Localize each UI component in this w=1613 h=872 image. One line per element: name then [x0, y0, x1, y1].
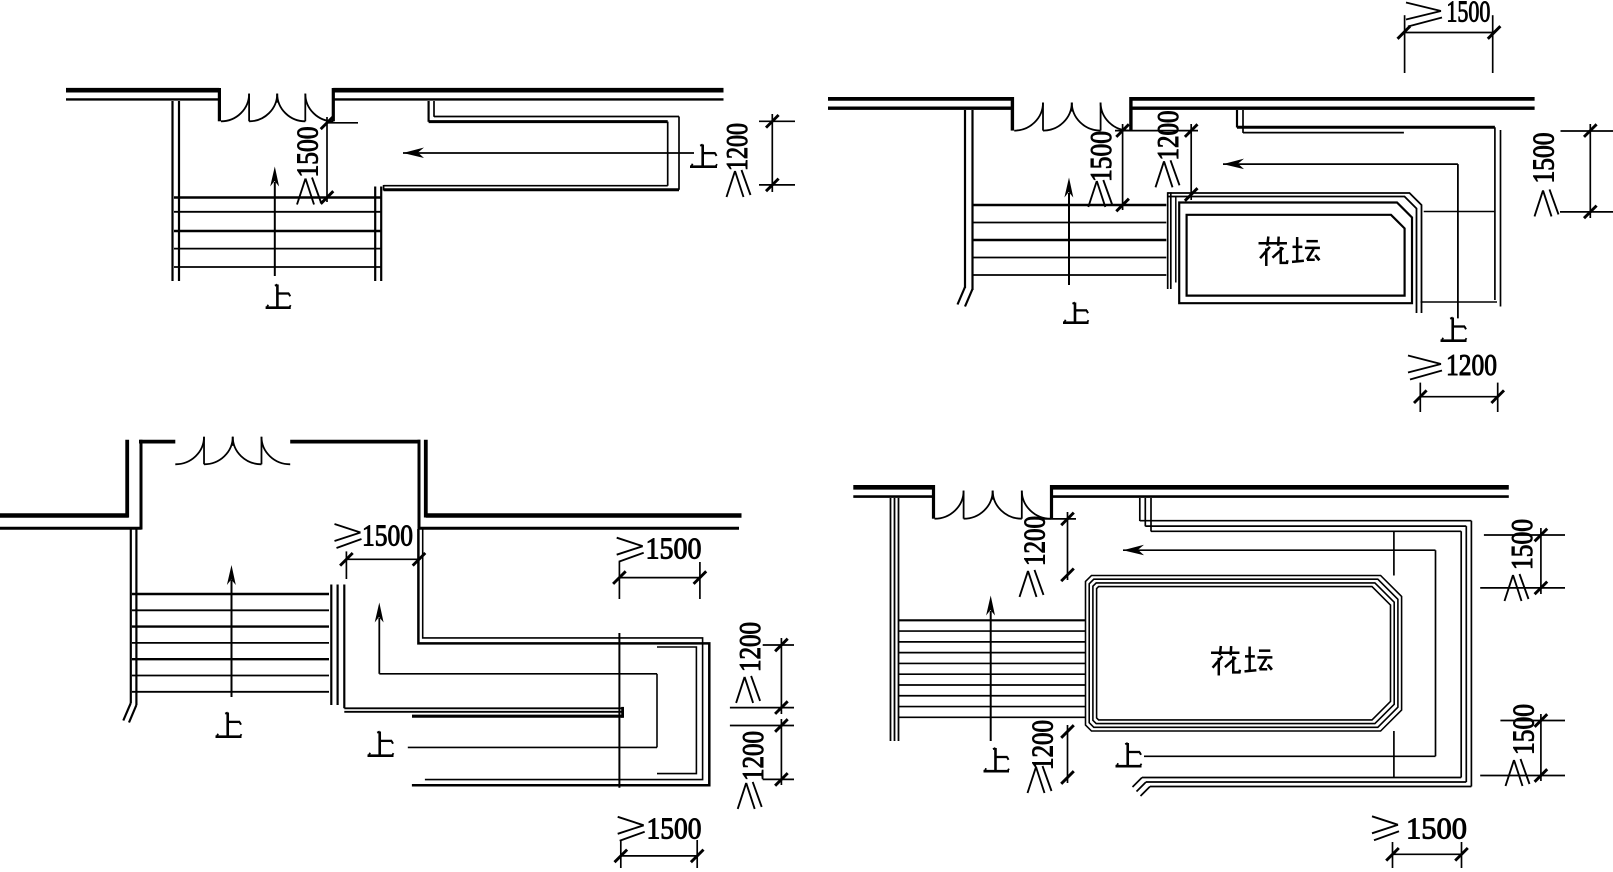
- svg-text:1200: 1200: [735, 731, 770, 781]
- BR dimension >=1200 (stairs bottom to walkway): [1025, 720, 1074, 793]
- TR upper walkway top edge (thick+thin): [1237, 127, 1495, 132]
- BL ramp area boundary (thin): [423, 529, 703, 780]
- TL label shang (stairs): [266, 285, 291, 308]
- BR lower route line: [1144, 755, 1436, 757]
- svg-text:1500: 1500: [1526, 133, 1561, 184]
- svg-text:1500: 1500: [1506, 704, 1541, 755]
- TR route corner vertical: [1457, 164, 1459, 318]
- svg-text:1500: 1500: [1446, 0, 1490, 29]
- BR wall left segment (double line): [853, 487, 934, 496]
- BL dimension >=1200 (lower ramp run): [730, 719, 794, 809]
- TR double door symbol: [1014, 103, 1129, 131]
- BL dimension >=1500 (turn landing top): [613, 531, 706, 600]
- BR landing division segments: [1393, 531, 1395, 777]
- BL stair left railing with broken end: [123, 530, 136, 723]
- svg-text:1500: 1500: [1504, 519, 1539, 570]
- TR flower bed outer outline: [1179, 203, 1412, 304]
- svg-text:1200: 1200: [1017, 516, 1052, 566]
- BR walkway hanging verticals (triple): [1140, 498, 1151, 532]
- BR door right jamb: [1050, 485, 1053, 519]
- TL upper walkway hanging verticals: [429, 101, 434, 122]
- BL outer wall right (thick): [426, 513, 742, 518]
- TL wall right segment (double line): [333, 90, 723, 99]
- TL wall left segment (double line): [66, 90, 219, 99]
- svg-text:1200: 1200: [1025, 720, 1060, 770]
- TR dimension >=1500 (door to stair): [1083, 124, 1198, 211]
- TL stair up arrow: [270, 167, 279, 277]
- svg-text:1200: 1200: [719, 123, 754, 171]
- BL label shang (stairs): [216, 713, 242, 737]
- BR dimension >=1200 (door to bed): [1017, 512, 1077, 597]
- BR walkway bottom band (triple line) with broken ends: [1133, 778, 1472, 797]
- TR dimension >=1200 (bottom): [1408, 347, 1504, 412]
- TR right ramp landing line: [1424, 211, 1495, 213]
- svg-text:1500: 1500: [646, 531, 702, 566]
- BL dimension >=1200 (upper ramp run): [730, 622, 794, 714]
- TR dimension >=1500 (right side): [1526, 124, 1613, 218]
- svg-text:1500: 1500: [647, 811, 702, 846]
- TL upper walkway top edge (thin+thick): [429, 117, 679, 122]
- BL upper route line with up arrow: [375, 603, 657, 674]
- BR walkway right band (triple line): [1461, 521, 1471, 787]
- TL door left jamb: [218, 88, 221, 121]
- TR wall right segment (double line): [1131, 99, 1535, 108]
- TR flower bed left retaining double line: [1168, 192, 1171, 289]
- TR dimension >=1500 (top, above wall): [1398, 0, 1501, 73]
- BR dimension >=1500 (right walkway top): [1480, 519, 1565, 601]
- TL walkway direction line with left arrow: [403, 148, 694, 159]
- BL dimension >=1500 (turn landing bottom): [615, 811, 704, 869]
- TL label shang (walkway): [690, 145, 717, 167]
- BR stair up arrow: [986, 596, 995, 742]
- BL label shang (route): [368, 732, 394, 756]
- BR flower bed outline ring 2: [1089, 579, 1398, 727]
- TL upper walkway bottom edge (thin+thick): [384, 185, 679, 191]
- BL alcove left outer corner vertical: [125, 440, 129, 518]
- BR double door symbol: [935, 491, 1051, 519]
- svg-text:1500: 1500: [290, 127, 325, 178]
- BR flower bed outline ring 1: [1086, 576, 1402, 732]
- TR flower bed upper walkway edge with chamfer: [1168, 193, 1422, 313]
- BL outer wall left (thick): [0, 513, 129, 518]
- BL stair steps: [132, 594, 329, 692]
- BR label shang (stairs): [984, 748, 1010, 771]
- BL alcove left inner vertical: [140, 440, 143, 530]
- BL dimension >=1500 (door landing): [335, 518, 426, 580]
- BR flower bed outline ring 4 (inner): [1097, 587, 1391, 720]
- svg-text:1200: 1200: [1446, 347, 1497, 382]
- TL stair right railing (double line): [375, 187, 381, 282]
- BR flower bed label huatan: [1211, 646, 1272, 675]
- BR walkway direction line with left arrow: [1123, 545, 1436, 556]
- TL upper walkway right edge: [668, 117, 679, 190]
- BL alcove top wall right of door: [290, 440, 420, 444]
- TR dimension >=1200 (door to flower bed): [1150, 111, 1197, 201]
- TR door left jamb: [1011, 97, 1014, 131]
- TR wall left segment (double line): [828, 99, 1014, 108]
- BL turning platform outline: [657, 647, 696, 774]
- BR door left jamb: [932, 485, 935, 519]
- BL route corner vertical: [656, 674, 658, 748]
- BL stair up arrow: [227, 565, 236, 697]
- BL inner wall right: [419, 527, 739, 530]
- TL stair left railing (double line): [173, 101, 180, 281]
- TR stair steps: [973, 205, 1167, 275]
- TL dimension >=1500 (door to stair): [290, 117, 359, 205]
- svg-text:1500: 1500: [362, 518, 413, 553]
- TR upper walkway hanging verticals: [1237, 110, 1243, 133]
- TR label shang (stairs): [1063, 303, 1089, 323]
- TR right ramp bottom line: [1421, 301, 1498, 303]
- BR route corner vertical: [1435, 550, 1437, 756]
- BL landing edge L and double line: [344, 585, 622, 712]
- TR door right jamb: [1129, 97, 1132, 131]
- BL alcove right inner vertical: [418, 440, 421, 530]
- svg-text:1500: 1500: [1083, 131, 1118, 182]
- TR flower bed label huatan: [1259, 237, 1320, 266]
- BL double door symbol: [175, 437, 290, 465]
- BL alcove right outer corner vertical: [424, 440, 428, 518]
- BL alcove top wall left of door: [139, 440, 175, 444]
- BR flower bed outline ring 3: [1093, 583, 1394, 724]
- BR stair steps: [899, 620, 1086, 717]
- TL dimension >=1200 (walkway width): [719, 114, 795, 197]
- TL stair steps: [174, 198, 381, 268]
- TL door right jamb: [332, 88, 335, 121]
- BR stair left railing (triple line): [891, 498, 899, 741]
- BL landing division line: [618, 633, 620, 788]
- BL lower route line: [408, 746, 657, 748]
- BR walkway top band (triple line): [1140, 521, 1472, 532]
- TR right ramp right edge (double line): [1495, 127, 1501, 306]
- BR wall right segment (double line): [1052, 487, 1509, 496]
- svg-text:1200: 1200: [732, 622, 767, 672]
- svg-text:1500: 1500: [1406, 811, 1467, 846]
- BR label shang (route): [1116, 743, 1142, 766]
- TR walkway direction line with left arrow: [1223, 159, 1458, 170]
- TR flower bed inner outline: [1187, 215, 1405, 296]
- BL inner wall left: [0, 527, 142, 530]
- BL ramp area boundary (thick): [412, 529, 709, 785]
- BR dimension >=1500 (right walkway bottom): [1480, 704, 1565, 786]
- BL ramp divider thick line: [412, 715, 623, 718]
- TR stair end edge line: [1175, 197, 1177, 283]
- BR dimension >=1500 (bottom landing): [1372, 811, 1468, 869]
- BL ramp divider end cap: [621, 707, 624, 718]
- TL double door symbol: [221, 94, 333, 122]
- BL stair right railing (double line): [331, 585, 337, 706]
- TR stair left railing (double line) with broken end: [958, 110, 973, 307]
- TR label shang (lower route): [1441, 318, 1467, 341]
- TR stair up arrow: [1064, 178, 1073, 286]
- svg-text:1200: 1200: [1150, 111, 1185, 161]
